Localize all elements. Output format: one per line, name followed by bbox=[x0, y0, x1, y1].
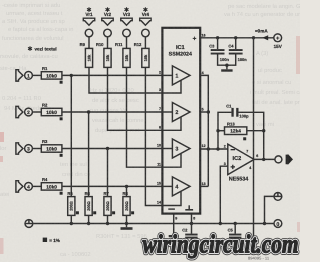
wire input1 to R1 bbox=[32, 74, 41, 76]
wire R5 drop bbox=[70, 75, 72, 196]
ground rail bbox=[33, 223, 274, 225]
resistor R12 bbox=[134, 42, 149, 67]
label IC1 bbox=[169, 45, 192, 58]
capacitor C2 bbox=[182, 224, 197, 246]
minus symbol inside IC1 bbox=[168, 208, 175, 209]
resistor R5 bbox=[67, 191, 79, 215]
terminal circle 4 bbox=[25, 183, 33, 191]
resistor R6 bbox=[85, 191, 97, 215]
pin 2 label bbox=[159, 71, 161, 75]
connector input 4 arrow bbox=[16, 181, 23, 192]
terminal circle 1 bbox=[25, 72, 33, 80]
resistor R11 bbox=[115, 42, 130, 67]
wire input2 to R2 bbox=[32, 111, 41, 113]
pin 16 supply rail bbox=[200, 37, 274, 39]
chassis terminal right bbox=[263, 193, 282, 226]
feedback top right bbox=[239, 112, 264, 159]
output terminal circle bbox=[275, 156, 282, 163]
node C3 C4 common bbox=[225, 63, 228, 66]
pin 4 ground wire bbox=[249, 160, 253, 245]
wire input line 2 bbox=[62, 111, 162, 113]
label Vr4 bbox=[142, 7, 150, 17]
supply terminal 15V bbox=[274, 34, 283, 49]
wire R7 to rail bbox=[107, 215, 109, 223]
pin 9 wire bbox=[169, 214, 179, 238]
node R8 rail bbox=[125, 222, 128, 225]
terminal circle VF1 bbox=[85, 29, 93, 37]
wire VF2 to R10 bbox=[107, 37, 109, 49]
node R5 rail bbox=[70, 222, 73, 225]
label Vr2 bbox=[104, 7, 112, 17]
feedback node pin2 bbox=[216, 147, 219, 150]
connector VF2 arrow bbox=[102, 18, 113, 25]
pin 7 label bbox=[159, 107, 161, 111]
resistor R9 bbox=[80, 42, 93, 67]
VCA 3 triangle bbox=[172, 139, 190, 158]
op-amp IC2 bbox=[228, 144, 254, 175]
label Vr3 bbox=[123, 7, 131, 17]
resistor R2 bbox=[41, 103, 62, 121]
wire input line 4 bbox=[62, 185, 162, 187]
pin 12 output wire bbox=[200, 144, 228, 151]
connector input 1 arrow bbox=[16, 70, 23, 81]
wire R6 drop bbox=[88, 112, 90, 197]
label Vr1 bbox=[85, 7, 93, 17]
wire R5 to rail bbox=[70, 215, 72, 223]
resistor R7 bbox=[104, 191, 116, 215]
terminal circle 3 bbox=[25, 145, 33, 153]
capacitor C1 bbox=[226, 104, 249, 119]
node R7 on line3 bbox=[106, 147, 109, 150]
capacitor C4 bbox=[227, 38, 247, 65]
resistor R1 bbox=[41, 66, 62, 84]
output arrow bbox=[286, 154, 293, 165]
label NE5534 bbox=[229, 177, 248, 183]
node R6 on line2 bbox=[87, 110, 90, 113]
pin 3 wire IC2 bbox=[219, 162, 228, 225]
wire input line 3 bbox=[62, 148, 162, 150]
wire input4 to R4 bbox=[32, 185, 41, 187]
resistor R4 bbox=[41, 177, 62, 195]
figure number 894095-11 bbox=[248, 255, 270, 260]
wire R8 drop bbox=[126, 186, 128, 196]
zero terminal right bbox=[274, 220, 282, 228]
node R13 right bbox=[262, 129, 265, 132]
pin 2 label IC2 bbox=[224, 144, 226, 148]
wire VF4 to R12 bbox=[144, 37, 146, 49]
connector VF4 arrow bbox=[140, 18, 151, 25]
pin 15 label bbox=[157, 182, 161, 186]
resistor R13 bbox=[218, 122, 264, 141]
wire R7 drop bbox=[107, 149, 109, 197]
pin 5 output wire bbox=[200, 107, 210, 113]
terminal circle VF2 bbox=[104, 29, 112, 37]
op-amp array IC1 box bbox=[162, 28, 200, 214]
node R7 rail bbox=[106, 222, 109, 225]
node R6 rail bbox=[87, 222, 90, 225]
terminal circle VF4 bbox=[142, 29, 150, 37]
capacitor C3 bbox=[209, 38, 229, 65]
pink scan artifacts bbox=[0, 36, 300, 254]
connector VF3 arrow bbox=[121, 18, 132, 25]
pin 8 wire bbox=[190, 214, 195, 226]
feedback left riser bbox=[218, 112, 231, 149]
connector input 2 arrow bbox=[16, 106, 23, 117]
ground symbol C3 C4 bbox=[221, 65, 232, 72]
pin 6 stub bbox=[159, 117, 181, 130]
current arrow 9mA bbox=[255, 28, 268, 40]
terminal circle 2 bbox=[25, 108, 33, 116]
resistor R10 bbox=[96, 42, 111, 67]
wire R10 to pin6 corner bbox=[108, 67, 163, 130]
node C3 bbox=[216, 36, 219, 39]
plus sign IC1 pin16 bbox=[193, 34, 206, 43]
VCA 4 triangle bbox=[172, 177, 190, 196]
note: vezi textul bbox=[28, 46, 57, 51]
pin 3 stub bbox=[159, 81, 181, 94]
wire VF1 to R9 bbox=[88, 37, 90, 49]
wire in2 inside IC bbox=[162, 111, 172, 113]
watermark wiringcircuit.com bbox=[143, 230, 299, 259]
ground symbol under R8 bbox=[121, 224, 133, 230]
VCA 2 triangle bbox=[172, 103, 190, 122]
wire in3 inside IC bbox=[162, 148, 172, 150]
connector VF1 arrow bbox=[83, 18, 94, 25]
wire R9 to pin3 corner bbox=[89, 67, 162, 93]
output wire bbox=[254, 154, 275, 161]
wire R12 to pin14 corner bbox=[145, 67, 162, 205]
wire R6 to rail bbox=[88, 215, 90, 223]
pin 10 label bbox=[157, 144, 161, 148]
node R5 on line1 bbox=[70, 74, 73, 77]
pin 13 output wire bbox=[200, 182, 208, 187]
node R13 left bbox=[216, 129, 219, 132]
node R8 on line4 bbox=[125, 185, 128, 188]
pin 11 stub bbox=[157, 154, 181, 168]
capacitor C5 bbox=[228, 222, 242, 245]
connector input 3 arrow bbox=[16, 143, 23, 154]
terminal circle VF3 bbox=[123, 29, 131, 37]
VCA 1 triangle bbox=[172, 66, 190, 85]
pin 7 supply wire bbox=[246, 38, 253, 159]
wire in1 inside IC bbox=[162, 74, 172, 76]
ground terminal left bbox=[25, 220, 33, 228]
node pin7 supply bbox=[252, 36, 255, 39]
ground symbol inside IC1 bbox=[185, 205, 193, 210]
resistor R8 bbox=[123, 191, 135, 215]
legend 1% bbox=[43, 238, 60, 243]
pin 14 stub bbox=[157, 192, 181, 206]
resistor R3 bbox=[41, 139, 62, 157]
wire input3 to R3 bbox=[32, 148, 41, 150]
wire R11 to pin11 corner bbox=[127, 67, 163, 167]
wire R8 to rail bbox=[126, 215, 128, 223]
pin 4 output wire bbox=[200, 71, 208, 186]
wire VF3 to R11 bbox=[126, 37, 128, 49]
wire input line 1 bbox=[62, 74, 162, 76]
node C4 bbox=[234, 36, 237, 39]
wire in4 inside IC bbox=[162, 185, 172, 187]
